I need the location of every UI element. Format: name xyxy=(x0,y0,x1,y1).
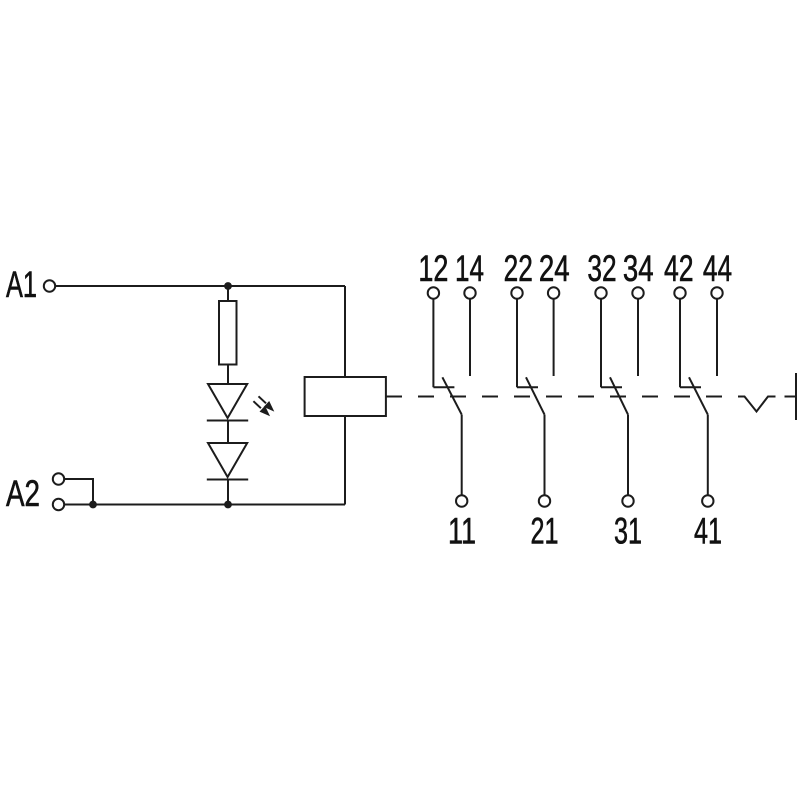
linkage dashed line xyxy=(418,396,722,398)
LED arrow 1 xyxy=(259,396,275,411)
wire 12 vertical xyxy=(432,299,434,387)
terminal 34 circle xyxy=(632,287,643,298)
contact group 2 : terminal 22 circle xyxy=(511,287,522,298)
terminal 24 circle xyxy=(548,287,559,298)
contact 3 foot xyxy=(601,386,622,388)
contact 3 arm xyxy=(610,377,628,414)
terminal 44 circle xyxy=(711,287,722,298)
linkage end segment xyxy=(785,396,796,398)
LED D1 triangle xyxy=(208,384,247,418)
node junction A2 jumper xyxy=(89,501,97,509)
relay coil K1 xyxy=(305,377,386,416)
svg-text:22: 22 xyxy=(504,248,533,289)
wire diode to bottom rail xyxy=(227,480,229,505)
wire coil to linkage xyxy=(386,396,402,398)
svg-text:31: 31 xyxy=(614,511,642,552)
wire junction to resistor top xyxy=(227,286,229,301)
wire 31 vertical xyxy=(627,415,629,495)
terminal 41 circle xyxy=(702,495,713,506)
node junction A1/resistor xyxy=(224,282,232,290)
svg-text:32: 32 xyxy=(587,248,616,289)
wire 22 vertical xyxy=(516,299,518,387)
wire 42 vertical xyxy=(679,299,681,387)
linkage end bar xyxy=(795,373,797,420)
wire 24 vertical xyxy=(553,299,555,376)
svg-text:11: 11 xyxy=(448,511,476,552)
wire LED to diode D2 xyxy=(227,421,229,444)
terminal A2 circle lower xyxy=(53,499,64,510)
svg-text:34: 34 xyxy=(623,248,654,289)
terminal 21 circle xyxy=(539,495,550,506)
svg-text:42: 42 xyxy=(664,248,694,289)
svg-text:24: 24 xyxy=(539,248,570,289)
svg-text:14: 14 xyxy=(455,248,484,289)
contact 2 foot xyxy=(517,386,538,388)
wire 21 vertical xyxy=(544,415,546,495)
terminal 11 circle xyxy=(456,495,467,506)
LED D1 cathode bar xyxy=(207,420,248,422)
svg-text:21: 21 xyxy=(531,511,559,552)
svg-text:12: 12 xyxy=(418,248,448,289)
resistor R1 xyxy=(219,301,237,365)
contact 4 arm xyxy=(689,377,708,414)
terminal 31 circle xyxy=(622,495,633,506)
contact 2 arm xyxy=(526,377,545,414)
svg-text:A2: A2 xyxy=(6,473,40,514)
wire A2 upper jumper xyxy=(64,479,93,505)
terminal A2 circle upper xyxy=(53,473,64,484)
wire 41 vertical xyxy=(707,415,709,495)
wire 11 vertical xyxy=(461,415,463,495)
contact 1 foot xyxy=(433,386,454,388)
svg-text:44: 44 xyxy=(703,248,732,289)
wire 14 vertical xyxy=(469,299,471,376)
contact 4 foot xyxy=(680,386,701,388)
wire 32 vertical xyxy=(600,299,602,387)
wire 34 vertical xyxy=(637,299,639,376)
diode D2 triangle xyxy=(208,443,247,477)
terminal A1 circle xyxy=(44,280,55,291)
wire bottom rail up to coil xyxy=(344,416,346,505)
wire resistor to LED xyxy=(227,365,229,385)
terminal 14 circle xyxy=(464,287,475,298)
contact group 4 : terminal 42 circle xyxy=(674,287,685,298)
wire A1 down to coil xyxy=(344,286,346,377)
contact group 1 : terminal 12 circle xyxy=(428,287,439,298)
node junction diode/bottom rail xyxy=(224,501,232,509)
diode D2 cathode bar xyxy=(207,479,248,481)
svg-text:41: 41 xyxy=(694,511,722,552)
wire A2 bottom rail xyxy=(64,504,345,506)
wire 44 vertical xyxy=(716,299,718,376)
wire A1 horizontal xyxy=(55,285,345,287)
LED arrow 2 xyxy=(253,401,270,416)
svg-text:A1: A1 xyxy=(6,264,37,305)
contact group 3 : terminal 32 circle xyxy=(595,287,606,298)
linkage actuator V symbol xyxy=(738,397,776,412)
contact 1 arm xyxy=(442,377,461,414)
